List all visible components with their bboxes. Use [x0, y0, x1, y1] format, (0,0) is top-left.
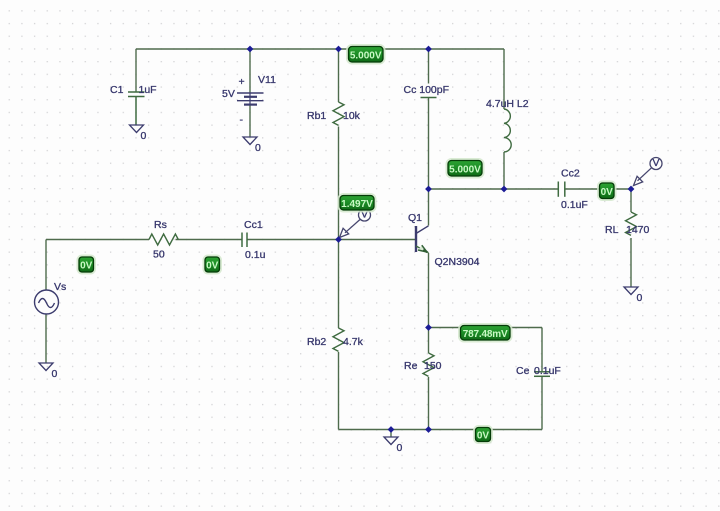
- battery V11: [237, 93, 264, 105]
- svg-text:Rb1: Rb1: [307, 110, 326, 122]
- svg-text:0.1uF: 0.1uF: [561, 199, 588, 211]
- wire output row right: [565, 188, 631, 190]
- wire top rail: [136, 48, 504, 50]
- ground Vs: [39, 363, 53, 371]
- svg-text:Vs: Vs: [54, 281, 66, 293]
- inductor L2: [504, 109, 511, 152]
- svg-text:Re: Re: [404, 360, 418, 372]
- svg-text:0: 0: [637, 292, 643, 304]
- svg-text:5V: 5V: [222, 88, 235, 100]
- node junction collector output: [425, 186, 432, 193]
- svg-text:10k: 10k: [343, 110, 361, 122]
- transistor Q1 emitter lead: [416, 246, 429, 253]
- svg-text:1470: 1470: [626, 224, 650, 236]
- wire Re top: [428, 328, 430, 354]
- node junction V11 top: [247, 46, 254, 53]
- svg-text:Rs: Rs: [154, 219, 167, 231]
- svg-text:V11: V11: [258, 74, 276, 86]
- svg-text:787.48mV: 787.48mV: [463, 329, 508, 340]
- svg-text:Ce: Ce: [516, 365, 530, 377]
- wire Rb2 bottom: [338, 352, 340, 430]
- voltage label 0V input1: [78, 256, 95, 274]
- wire C1 drop: [135, 49, 137, 92]
- wire V11 to ground: [249, 105, 251, 137]
- svg-text:0.1u: 0.1u: [245, 249, 266, 261]
- svg-text:4.7k: 4.7k: [343, 336, 364, 348]
- ground RL: [624, 287, 638, 295]
- wire input row seg2: [176, 239, 243, 241]
- ground C1: [130, 125, 144, 133]
- resistor Rb1: [333, 102, 344, 125]
- wire Cc to output node: [428, 98, 430, 190]
- voltage label 787.48mV: [459, 324, 511, 341]
- svg-text:0.1uF: 0.1uF: [534, 365, 561, 377]
- svg-text:Rb2: Rb2: [307, 336, 326, 348]
- resistor Rs: [149, 234, 178, 245]
- svg-text:0: 0: [255, 142, 261, 154]
- wire ground stem bottom: [390, 430, 392, 438]
- ground V11: [243, 137, 257, 145]
- label Cc 100pF knockout: [403, 84, 450, 95]
- wire emitter branch to Ce: [429, 327, 543, 329]
- wire Re bottom: [428, 377, 430, 430]
- node junction base: [335, 236, 342, 243]
- transistor Q1 bar: [415, 226, 417, 252]
- svg-text:RL: RL: [605, 224, 619, 236]
- node junction bottom ground: [388, 426, 395, 433]
- voltage label 5.000V top: [347, 45, 384, 63]
- capacitor Cc2: [558, 182, 565, 197]
- svg-text:0V: 0V: [477, 431, 490, 442]
- svg-text:C1: C1: [110, 84, 124, 96]
- voltage label 1.497V: [339, 194, 376, 211]
- transistor Q1 collector lead: [416, 226, 429, 234]
- capacitor C1: [128, 92, 145, 125]
- svg-text:0V: 0V: [206, 261, 219, 272]
- node junction emitter: [425, 324, 432, 331]
- svg-text:50: 50: [153, 249, 165, 261]
- wire input row seg3 to base: [247, 239, 415, 241]
- resistor Rb2: [333, 328, 344, 351]
- node junction Re bottom: [425, 426, 432, 433]
- wire Ce bottom: [541, 377, 543, 430]
- svg-text:150: 150: [424, 360, 442, 372]
- node junction RL output: [628, 186, 635, 193]
- wire Vs to ground: [45, 314, 47, 363]
- voltage label 0V bottom: [474, 426, 492, 443]
- svg-text:0: 0: [141, 130, 147, 142]
- resistor Re: [423, 353, 434, 376]
- node junction L2 output: [501, 186, 508, 193]
- ground bottom: [384, 437, 398, 445]
- svg-text:Cc2: Cc2: [561, 168, 580, 180]
- node junction Cc top: [425, 46, 432, 53]
- wire RL top: [630, 189, 632, 212]
- wire collector: [428, 189, 430, 226]
- wire L2 top: [503, 49, 505, 109]
- svg-text:4.7uH L2: 4.7uH L2: [486, 98, 529, 110]
- wire L2 to output row: [503, 152, 505, 189]
- wire Vs top: [45, 240, 47, 291]
- svg-text:0: 0: [397, 442, 403, 454]
- capacitor Ce: [534, 372, 550, 377]
- source Vs: [35, 290, 59, 314]
- svg-text:0: 0: [52, 368, 58, 380]
- transistor Q1 emitter arrow: [418, 245, 427, 252]
- svg-text:-: -: [240, 114, 244, 126]
- probe V at base: [340, 209, 371, 238]
- svg-text:Cc 100pF: Cc 100pF: [404, 84, 450, 96]
- wire emitter: [428, 253, 430, 328]
- svg-text:Q1: Q1: [408, 212, 422, 224]
- svg-text:Cc1: Cc1: [244, 219, 263, 231]
- voltage label 0V input2: [204, 256, 221, 274]
- wire RL to ground: [630, 238, 632, 287]
- wire bottom rail: [339, 429, 543, 431]
- voltage label 5.000V mid: [447, 159, 484, 177]
- wire Rb1 to base node: [338, 127, 340, 240]
- wire input row seg1: [46, 239, 149, 241]
- svg-text:1.497V: 1.497V: [341, 199, 373, 210]
- wire output row left: [429, 188, 559, 190]
- svg-text:5.000V: 5.000V: [350, 51, 382, 62]
- svg-text:0V: 0V: [80, 261, 93, 272]
- capacitor Cc1: [242, 233, 247, 248]
- svg-text:+: +: [239, 76, 245, 88]
- svg-text:Q2N3904: Q2N3904: [435, 256, 480, 268]
- wire Cc top: [428, 49, 430, 93]
- svg-text:5.000V: 5.000V: [449, 165, 481, 176]
- wire Rb2 top: [338, 240, 340, 329]
- wire V11 top: [249, 49, 251, 93]
- capacitor Cc: [421, 94, 437, 98]
- voltage label 0V output: [598, 182, 615, 200]
- wire Ce top: [541, 328, 543, 372]
- wire Rb1 top: [338, 49, 340, 102]
- svg-text:1uF: 1uF: [139, 84, 157, 96]
- resistor RL: [626, 212, 637, 235]
- svg-text:V: V: [652, 157, 659, 169]
- probe V at output: [634, 158, 663, 186]
- node junction Rb1 top: [335, 46, 342, 53]
- svg-text:0V: 0V: [601, 187, 614, 198]
